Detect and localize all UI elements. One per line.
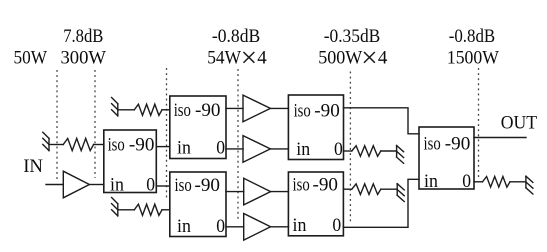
wire U6 0 to R6 xyxy=(474,181,483,183)
amplifier A4 xyxy=(244,214,271,241)
resistor R1 (U1 iso load) xyxy=(63,138,93,150)
svg-text:-90: -90 xyxy=(313,175,339,196)
wire U2 out to A1 xyxy=(226,107,243,109)
ground (U3 termination) xyxy=(112,198,118,216)
ground (U1 iso termination) xyxy=(43,132,49,150)
svg-text:in: in xyxy=(296,139,310,160)
resistor R4 (U4 0-port load) xyxy=(352,146,381,157)
svg-text:4: 4 xyxy=(378,48,388,69)
wire ground to R1 xyxy=(49,144,63,146)
svg-text:-90: -90 xyxy=(195,100,221,121)
svg-text:0: 0 xyxy=(332,215,341,236)
multiplication sign (500W x 4) xyxy=(365,53,375,63)
svg-text:-0.8dB: -0.8dB xyxy=(449,26,496,47)
svg-text:300W: 300W xyxy=(61,48,107,69)
svg-text:500W: 500W xyxy=(318,48,362,69)
svg-text:7.8dB: 7.8dB xyxy=(63,26,103,47)
amplifier A3 xyxy=(244,178,271,205)
resistor R5 (U5 -90-port load) xyxy=(352,184,381,195)
ground (R4) xyxy=(397,146,404,164)
wire ground to R2 xyxy=(118,109,135,111)
svg-text:-90: -90 xyxy=(314,100,340,121)
svg-text:iso: iso xyxy=(293,175,310,196)
hybrid combiner U4 (top) xyxy=(288,95,343,160)
resistor R3 (U3 load) xyxy=(134,204,162,215)
wire R1 to U1 iso xyxy=(94,144,104,146)
dotted divider x=478.5 xyxy=(478,68,480,177)
top power/gain labels xyxy=(14,26,538,177)
resistor R2 (U2 iso load) xyxy=(134,104,162,115)
svg-text:1500W: 1500W xyxy=(447,48,499,69)
wire U5 -90 to R5 xyxy=(343,188,351,190)
hybrid splitter U1 xyxy=(104,130,157,196)
svg-text:-90: -90 xyxy=(195,175,221,196)
multiplication sign (54W x 4) xyxy=(244,53,254,63)
wire A2 to combiner xyxy=(270,148,288,150)
svg-text:iso: iso xyxy=(108,135,125,156)
svg-text:0: 0 xyxy=(146,175,155,196)
svg-text:4: 4 xyxy=(257,48,267,69)
svg-text:in: in xyxy=(424,171,438,192)
svg-text:IN: IN xyxy=(23,156,43,177)
wire U1 0 to U3 iso xyxy=(156,185,170,187)
svg-text:0: 0 xyxy=(334,139,343,160)
dotted divider x=57 xyxy=(56,70,58,181)
wire A3 to combiner xyxy=(271,191,289,193)
svg-text:-90: -90 xyxy=(445,134,471,155)
wire ground to R3 xyxy=(118,209,135,211)
svg-text:0: 0 xyxy=(216,138,225,159)
wire U2 out to A2 xyxy=(226,148,243,150)
svg-text:54W: 54W xyxy=(207,48,241,69)
hybrid splitter U3 (bottom) xyxy=(170,172,226,237)
svg-text:OUT: OUT xyxy=(501,113,538,134)
svg-text:in: in xyxy=(177,216,191,237)
dotted divider x=350.4 xyxy=(349,72,351,223)
wire U6 -90 to OUT xyxy=(474,137,526,139)
wire U3 out to A3 xyxy=(226,191,244,193)
svg-text:iso: iso xyxy=(424,134,441,155)
svg-text:in: in xyxy=(110,175,124,196)
dotted divider x=166.5 xyxy=(166,68,168,200)
amplifier A0 (preamp) xyxy=(63,171,89,198)
wire R2 to U2 iso xyxy=(162,109,170,111)
wire A4 to combiner xyxy=(271,226,289,228)
wire U1 -90 to U2 in xyxy=(156,146,170,148)
wire R5 to ground xyxy=(381,188,397,190)
wire U4 -90 out to U6 iso xyxy=(344,108,420,134)
svg-text:-0.8dB: -0.8dB xyxy=(212,26,260,47)
wire R4 to ground xyxy=(381,150,397,152)
wire U4 0 to R4 xyxy=(344,150,352,152)
wire U3 out to A4 xyxy=(226,226,244,228)
dotted divider x=238 xyxy=(237,69,239,220)
wire R6 to ground xyxy=(510,181,526,183)
wire IN to preamp xyxy=(46,184,63,186)
wire A1 to combiner xyxy=(270,107,288,109)
amplifier A1 xyxy=(243,95,270,122)
dotted divider x=95 xyxy=(94,70,96,178)
svg-text:iso: iso xyxy=(174,100,191,121)
wire U5 0 out to U6 in xyxy=(343,179,419,227)
wire R3 to U3 xyxy=(162,209,170,211)
resistor R6 (U6 0-port load) xyxy=(483,177,511,188)
svg-text:in: in xyxy=(177,138,191,159)
ground (U2 iso termination) xyxy=(112,98,118,116)
ground (R5) xyxy=(397,184,404,202)
svg-text:iso: iso xyxy=(294,100,311,121)
hybrid combiner U5 (bottom) xyxy=(288,172,343,236)
svg-text:50W: 50W xyxy=(14,48,48,69)
svg-text:iso: iso xyxy=(175,175,192,196)
svg-text:0: 0 xyxy=(216,216,225,237)
svg-text:-90: -90 xyxy=(129,135,155,156)
svg-text:-0.35dB: -0.35dB xyxy=(324,26,381,47)
svg-text:in: in xyxy=(293,215,307,236)
final hybrid combiner U6 xyxy=(419,127,474,192)
ground (R6) xyxy=(526,176,533,194)
wire preamp to U1 in xyxy=(89,184,103,186)
hybrid splitter U2 (top) xyxy=(170,96,226,159)
svg-text:0: 0 xyxy=(462,171,471,192)
amplifier A2 xyxy=(243,136,270,163)
